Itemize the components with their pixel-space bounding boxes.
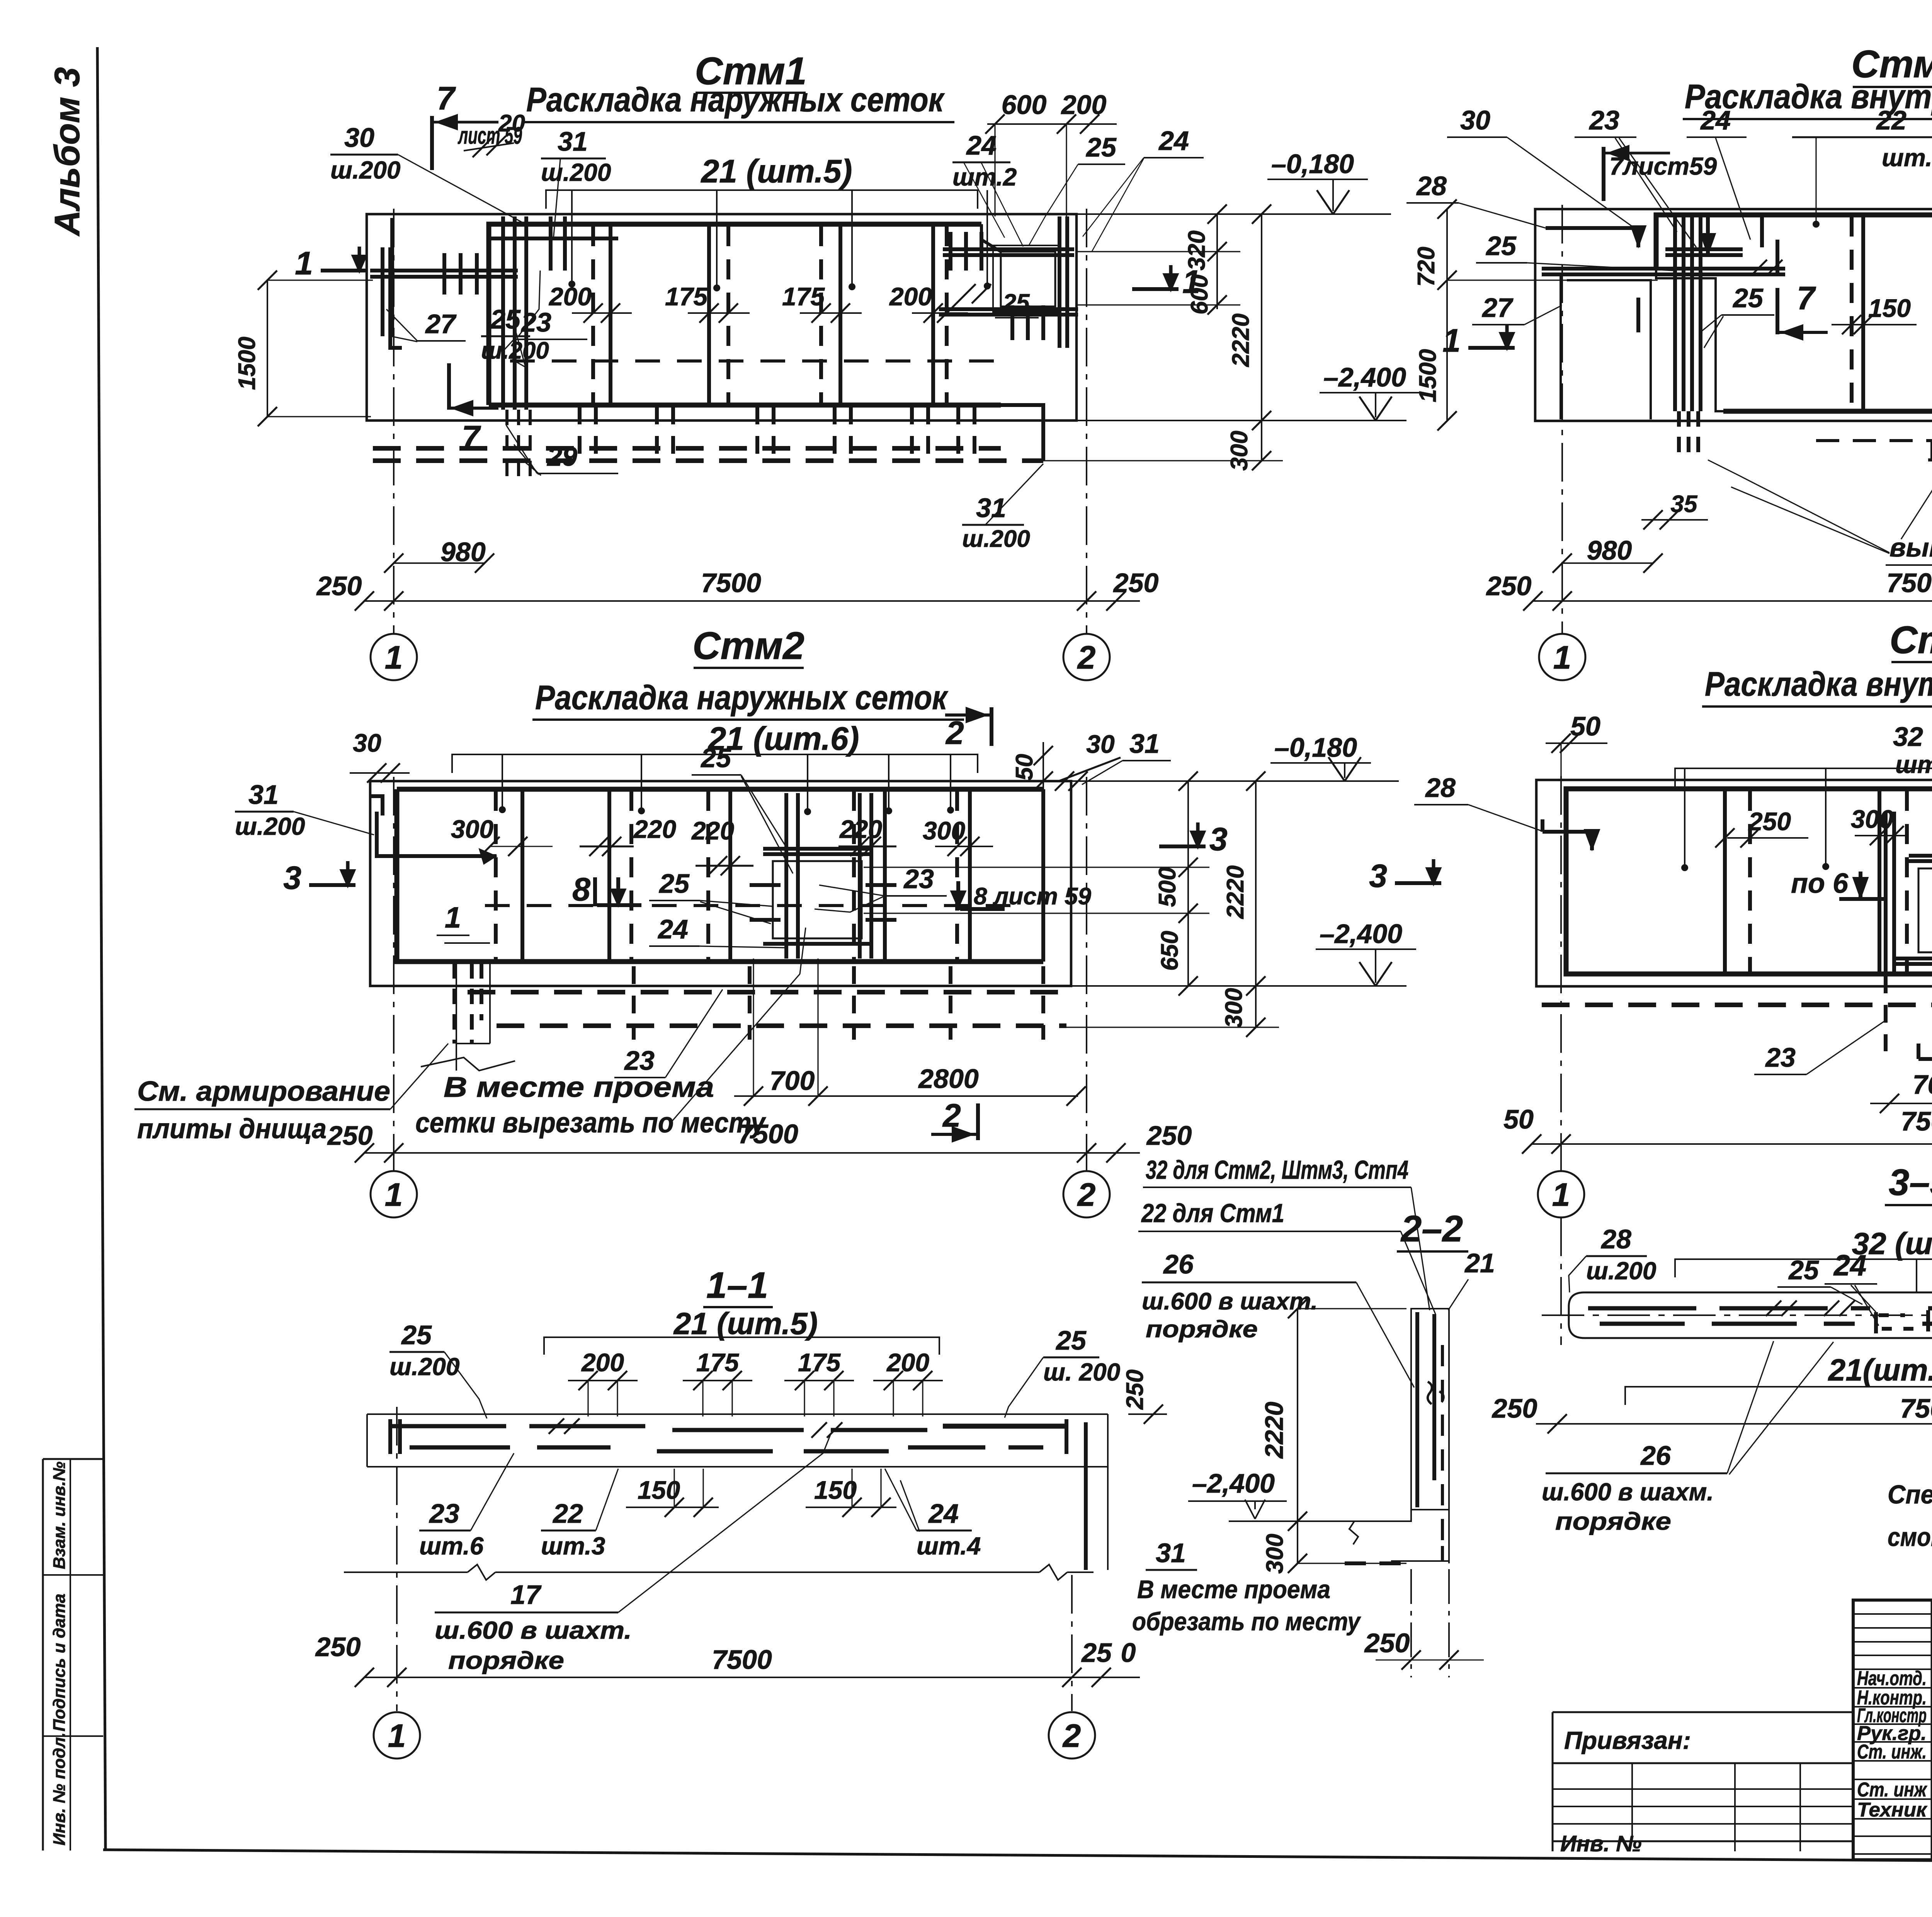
view1 left corner rebar bbox=[370, 216, 618, 477]
view1 axis line 1 bbox=[393, 209, 395, 634]
view4 axis line 1 bbox=[1560, 776, 1562, 1171]
view1 opening bbox=[993, 245, 1061, 312]
svg-text:ш.200: ш.200 bbox=[235, 812, 305, 840]
sect22 label 22 dlya bbox=[1138, 1199, 1435, 1314]
view3 axis line 1 bbox=[393, 777, 395, 1171]
sect33 band body bbox=[1569, 1292, 1932, 1376]
view2 section mark 7 inner bbox=[1777, 280, 1828, 340]
view4 wall outline bbox=[1536, 780, 1932, 986]
view3 label 25 mid bbox=[649, 868, 773, 924]
svg-text:24: 24 bbox=[966, 130, 997, 160]
svg-text:20: 20 bbox=[498, 110, 525, 137]
sect11 label 22 sht3 bbox=[541, 1469, 618, 1560]
view3 note v meste proema bbox=[415, 928, 806, 1139]
svg-text:32: 32 bbox=[1893, 722, 1923, 752]
svg-text:25: 25 bbox=[1003, 289, 1030, 316]
svg-text:–0,180: –0,180 bbox=[1271, 149, 1354, 179]
sect11 axis line 1 bbox=[396, 1407, 398, 1711]
view1 dim 20 bbox=[464, 110, 525, 157]
svg-text:7500: 7500 bbox=[1886, 568, 1932, 598]
view3 bottom dashed band bbox=[421, 962, 1066, 1071]
sect33 axis line 1 bbox=[1560, 1217, 1562, 1345]
view2 label 30 bbox=[1447, 105, 1634, 228]
view4 label 32 sht4 bbox=[1675, 722, 1932, 871]
view2 section mark 1 left bbox=[1468, 346, 1515, 350]
svg-text:Стм2: Стм2 bbox=[1889, 618, 1932, 662]
svg-text:175: 175 bbox=[696, 1348, 739, 1377]
svg-text:ш.200: ш.200 bbox=[962, 526, 1030, 552]
svg-text:700: 700 bbox=[1913, 1069, 1932, 1100]
svg-text:2: 2 bbox=[942, 1097, 961, 1134]
view1 mesh outline bbox=[489, 224, 1001, 405]
privyazan table bbox=[1553, 1712, 1853, 1856]
svg-text:28: 28 bbox=[1600, 1224, 1631, 1254]
svg-text:1: 1 bbox=[385, 639, 403, 676]
svg-text:1: 1 bbox=[1182, 264, 1201, 300]
svg-text:ш. 200: ш. 200 bbox=[1043, 1358, 1120, 1386]
view3 section mark 8 list59 right bbox=[951, 881, 1091, 910]
svg-text:по 6: по 6 bbox=[1791, 868, 1849, 899]
view3 axis line 2 bbox=[1086, 777, 1087, 1171]
title block left grid bbox=[1853, 1600, 1932, 1860]
svg-text:28: 28 bbox=[1425, 773, 1456, 803]
svg-text:1500: 1500 bbox=[1415, 349, 1441, 402]
svg-text:250: 250 bbox=[1748, 807, 1791, 836]
svg-text:31: 31 bbox=[1156, 1538, 1186, 1568]
svg-text:24: 24 bbox=[928, 1498, 959, 1529]
view1 dim row 250-7500-250 bbox=[316, 568, 1159, 611]
view2 left rebar cluster bbox=[1542, 215, 1785, 458]
svg-text:7лист59: 7лист59 bbox=[1609, 152, 1717, 180]
sect22 dim 250 bbox=[1364, 1569, 1484, 1677]
sect11 dim row 250-7500-250 bbox=[315, 1632, 1140, 1687]
svg-text:250: 250 bbox=[1113, 568, 1159, 598]
sect22 label 21 bbox=[1448, 1248, 1495, 1310]
sect11 dims 150 150 bbox=[626, 1469, 896, 1517]
view3 section mark 2 top bbox=[945, 707, 992, 751]
svg-text:Стм2: Стм2 bbox=[692, 624, 804, 667]
view1 section mark 1 right bbox=[1132, 287, 1179, 291]
view2 title Stm1 bbox=[1851, 43, 1932, 87]
svg-text:ш.600 в шахм.: ш.600 в шахм. bbox=[1542, 1478, 1714, 1506]
svg-text:2220: 2220 bbox=[1222, 865, 1249, 919]
view4 dim 700 2800 bbox=[1870, 1069, 1932, 1113]
svg-text:Техник: Техник bbox=[1857, 1799, 1928, 1821]
view1 right dim col outer bbox=[1043, 204, 1283, 471]
svg-text:Раскладка наружных сеток: Раскладка наружных сеток bbox=[535, 678, 949, 717]
svg-text:шт. 4: шт. 4 bbox=[1895, 751, 1932, 778]
sect11 ground line bbox=[344, 1565, 1094, 1580]
view3 label 31 sh200 top left bbox=[235, 780, 374, 840]
view1 section mark 7 list 59 top bbox=[432, 80, 522, 170]
svg-text:7500: 7500 bbox=[1901, 1106, 1932, 1136]
view3 subtitle bbox=[532, 678, 964, 720]
view3 label 23 mid bbox=[815, 864, 947, 912]
view3 right dim col outer bbox=[1066, 771, 1279, 1037]
sect33 title bbox=[1885, 1162, 1932, 1205]
svg-text:0: 0 bbox=[1121, 1638, 1136, 1668]
stamp column boxes bbox=[43, 1459, 103, 1851]
view1 wall outline bbox=[367, 214, 1077, 421]
svg-text:30: 30 bbox=[1086, 730, 1115, 758]
svg-text:23: 23 bbox=[1765, 1042, 1796, 1073]
view1 axis circle 2 bbox=[1063, 634, 1110, 680]
view3 dims 30 31 top right bbox=[1055, 729, 1171, 791]
view4 dim row 50-7500-250 bbox=[1503, 1104, 1932, 1154]
view3 right dim col inner bbox=[864, 771, 1209, 996]
svg-text:7: 7 bbox=[437, 80, 456, 116]
svg-text:23: 23 bbox=[624, 1045, 655, 1076]
view2 dim 720 1500 bbox=[1413, 199, 1658, 431]
view1 axis line 2 bbox=[1086, 209, 1087, 634]
svg-text:250: 250 bbox=[327, 1120, 373, 1151]
svg-text:600: 600 bbox=[1002, 90, 1047, 120]
view2 mesh outline bbox=[1656, 215, 1932, 411]
svg-text:Спецификацию арматурных изде: Спецификацию арматурных изделий bbox=[1888, 1480, 1932, 1509]
svg-text:24: 24 bbox=[657, 914, 688, 944]
svg-text:2: 2 bbox=[1077, 639, 1096, 676]
svg-text:32 для Стм2, Штм3, Стп4: 32 для Стм2, Штм3, Стп4 bbox=[1146, 1155, 1408, 1185]
svg-text:300: 300 bbox=[1262, 1534, 1288, 1573]
svg-text:50: 50 bbox=[1011, 754, 1038, 781]
svg-text:23: 23 bbox=[903, 864, 934, 894]
svg-text:21: 21 bbox=[1464, 1248, 1495, 1278]
sect22 dim 2220 bbox=[1260, 1299, 1406, 1531]
sect11 dim 250 right bbox=[1122, 1369, 1167, 1424]
svg-text:29: 29 bbox=[546, 441, 577, 472]
svg-text:выпуски из днища: выпуски из днища bbox=[1889, 533, 1932, 562]
svg-text:175: 175 bbox=[798, 1348, 841, 1377]
view2 bottom dashed lines bbox=[1723, 411, 1932, 460]
view1 dims 200 175 175 200 bbox=[548, 282, 968, 323]
view1 title Stm1 bbox=[695, 49, 806, 93]
svg-text:150: 150 bbox=[814, 1476, 857, 1504]
view2 label 25 left bbox=[1476, 231, 1673, 271]
view2 label 23 bbox=[1575, 105, 1696, 247]
view3 section mark 3 right bbox=[1159, 844, 1206, 848]
view2 label vypuski bbox=[1708, 433, 1932, 565]
sect11 axis circle 1 bbox=[374, 1712, 420, 1759]
svg-text:21 (шт.5): 21 (шт.5) bbox=[673, 1306, 818, 1341]
svg-text:Привязан:: Привязан: bbox=[1564, 1726, 1691, 1754]
sect11 label 21 sht5 bbox=[544, 1306, 939, 1355]
svg-text:шт.4: шт.4 bbox=[917, 1532, 981, 1560]
svg-text:шт.3: шт.3 bbox=[541, 1532, 605, 1560]
sect22 label 32 dlya bbox=[1143, 1155, 1430, 1310]
sect11 rebar rows bbox=[390, 1418, 1066, 1454]
svg-text:2: 2 bbox=[945, 715, 964, 751]
view3 label 24 mid bbox=[649, 914, 784, 948]
svg-text:шт.2: шт.2 bbox=[952, 163, 1017, 191]
svg-text:3: 3 bbox=[1209, 821, 1228, 857]
view1 label 25 small bbox=[956, 284, 1039, 318]
svg-text:ш.600 в шахт.: ш.600 в шахт. bbox=[1142, 1288, 1318, 1315]
view2 axis circle 1 bbox=[1539, 634, 1585, 680]
svg-text:21(шт. 6): 21(шт. 6) bbox=[1828, 1353, 1932, 1387]
svg-text:24: 24 bbox=[1700, 105, 1731, 135]
svg-text:25: 25 bbox=[1081, 1638, 1112, 1668]
sect33 center line bbox=[1542, 1314, 1932, 1316]
view2 left opening bbox=[1561, 274, 1651, 419]
svg-text:300: 300 bbox=[451, 815, 493, 843]
sect11 axis line 2 bbox=[1071, 1575, 1073, 1711]
view4 left end bar bbox=[1543, 819, 1600, 850]
svg-text:650: 650 bbox=[1156, 931, 1183, 970]
sect22 column foot bbox=[1345, 1510, 1449, 1563]
sect33 labels 25 24 above bbox=[1777, 1249, 1932, 1326]
svg-text:2–2: 2–2 bbox=[1400, 1208, 1463, 1250]
svg-text:300: 300 bbox=[923, 816, 965, 845]
svg-text:7: 7 bbox=[1797, 280, 1816, 316]
svg-text:смотрите на листе 60.: смотрите на листе 60. bbox=[1888, 1522, 1932, 1552]
view1 dim 980 bbox=[384, 537, 494, 573]
view2 section mark 7 list59 bbox=[1604, 145, 1717, 201]
svg-text:175: 175 bbox=[665, 282, 708, 311]
svg-text:31: 31 bbox=[558, 126, 588, 157]
sect22 label 31 note bbox=[1132, 1538, 1361, 1636]
svg-text:150: 150 bbox=[1868, 294, 1911, 322]
svg-text:25: 25 bbox=[1085, 132, 1117, 162]
svg-text:250: 250 bbox=[1146, 1120, 1192, 1151]
view4 subtitle bbox=[1702, 665, 1932, 707]
view2 wall outline bbox=[1535, 209, 1932, 421]
view2 axis line 1 bbox=[1561, 205, 1563, 634]
svg-text:2220: 2220 bbox=[1228, 313, 1254, 367]
svg-text:Раскладка внутренних сеток: Раскладка внутренних сеток bbox=[1705, 665, 1932, 703]
view3 section mark 2 bottom bbox=[931, 1097, 978, 1142]
svg-text:1: 1 bbox=[445, 901, 461, 934]
svg-text:24: 24 bbox=[1158, 126, 1189, 156]
svg-text:220: 220 bbox=[633, 815, 676, 843]
view1 bottom dashed band bbox=[373, 405, 1043, 461]
view2 mesh vertical bars bbox=[1852, 216, 1932, 410]
svg-text:Подпись и дата: Подпись и дата bbox=[50, 1594, 69, 1731]
svg-text:23: 23 bbox=[520, 307, 551, 337]
sect33 label 32 sht4 bbox=[1675, 1226, 1932, 1293]
svg-text:ш.200: ш.200 bbox=[330, 156, 400, 184]
view1 label 29 bbox=[506, 425, 618, 475]
svg-text:Альбом 3: Альбом 3 bbox=[48, 67, 87, 237]
view1 mesh vertical bars bbox=[593, 226, 947, 404]
sect22 label 26 bbox=[1142, 1249, 1414, 1388]
svg-text:22 для Стм1: 22 для Стм1 bbox=[1141, 1199, 1284, 1228]
svg-text:В месте проема: В месте проема bbox=[1137, 1575, 1330, 1604]
view3 axis circle 1 bbox=[371, 1171, 417, 1217]
spec note bbox=[1888, 1480, 1932, 1552]
view1 label 30 sh200 bbox=[330, 123, 526, 224]
view2 label 22 sht3 bbox=[1792, 105, 1932, 228]
view1 axis circle 1 bbox=[371, 634, 417, 680]
svg-text:22: 22 bbox=[1876, 105, 1906, 135]
sect11 label 23 sht6 bbox=[419, 1453, 514, 1560]
view2 dim row 250-7500-250 bbox=[1486, 568, 1932, 611]
view3 label 23 bottom bbox=[614, 989, 723, 1078]
view3 section mark 3 left bbox=[309, 883, 355, 887]
view2 dims 150 150 bbox=[1832, 294, 1932, 334]
svg-text:обрезать по месту: обрезать по месту bbox=[1132, 1607, 1361, 1636]
svg-text:ш.200: ш.200 bbox=[541, 158, 611, 186]
view1 label 25 sh200 left bbox=[481, 271, 549, 367]
view4 dims 250 300 250 bbox=[1715, 805, 1932, 848]
svg-text:27: 27 bbox=[1481, 293, 1514, 323]
svg-text:шт.6: шт.6 bbox=[419, 1532, 484, 1560]
svg-text:200: 200 bbox=[581, 1348, 624, 1377]
svg-text:720: 720 bbox=[1413, 247, 1440, 286]
svg-text:–2,400: –2,400 bbox=[1323, 362, 1406, 392]
svg-text:25: 25 bbox=[1485, 231, 1517, 261]
sect11 slab body bbox=[367, 1414, 1108, 1570]
svg-text:220: 220 bbox=[691, 816, 734, 845]
svg-text:2220: 2220 bbox=[1260, 1401, 1288, 1459]
view4 axis circle 1 bbox=[1538, 1171, 1584, 1217]
view1 subtitle bbox=[524, 80, 954, 122]
svg-text:плиты днища: плиты днища bbox=[137, 1113, 327, 1144]
svg-text:ш.200: ш.200 bbox=[389, 1353, 459, 1381]
svg-text:21 (шт.5): 21 (шт.5) bbox=[700, 153, 852, 189]
view3 dim 50 right bbox=[1011, 742, 1053, 791]
svg-text:250: 250 bbox=[316, 571, 362, 601]
svg-text:250: 250 bbox=[1364, 1628, 1410, 1658]
view1 label 31 bottom right bbox=[962, 464, 1043, 552]
svg-text:3–3: 3–3 bbox=[1889, 1162, 1932, 1203]
view4 section po6 left bbox=[1791, 868, 1884, 901]
svg-text:В месте проема: В месте проема bbox=[444, 1071, 714, 1103]
view1 label 23 bbox=[504, 307, 587, 350]
svg-text:23: 23 bbox=[429, 1498, 459, 1529]
sect33 band rebar bbox=[1588, 1301, 1932, 1333]
svg-text:31: 31 bbox=[1129, 729, 1160, 759]
svg-text:Ст. инж.: Ст. инж. bbox=[1857, 1741, 1927, 1763]
svg-text:Инв. № подл.: Инв. № подл. bbox=[50, 1733, 69, 1845]
view1 dim 1500 left bbox=[234, 271, 373, 426]
svg-text:26: 26 bbox=[1640, 1440, 1671, 1471]
svg-text:Ст. инж: Ст. инж bbox=[1857, 1779, 1927, 1801]
svg-text:Взам. инв.№: Взам. инв.№ bbox=[50, 1462, 69, 1569]
view3 pos1 underline bbox=[444, 942, 490, 944]
view3 dims 300 220 220 220 300 bbox=[451, 815, 993, 875]
view2 dim 35 left bbox=[1641, 491, 1708, 529]
view3 wall outline bbox=[370, 781, 1071, 986]
view4 label 28 left bbox=[1414, 773, 1542, 831]
svg-text:24: 24 bbox=[1833, 1249, 1867, 1282]
svg-text:–0,180: –0,180 bbox=[1274, 732, 1357, 763]
svg-text:Раскладка наружных сеток: Раскладка наружных сеток bbox=[526, 80, 945, 119]
svg-text:25: 25 bbox=[401, 1320, 432, 1350]
view3 sm armirovanie note bbox=[134, 1044, 448, 1144]
sect11 label 24 sht4 bbox=[885, 1469, 981, 1560]
sect33 dim row 250-7500-250 bbox=[1492, 1390, 1932, 1433]
sect11 label 17 bbox=[435, 1434, 831, 1674]
view4 mesh vertical bars bbox=[1725, 791, 1932, 972]
view4 label 23 bottom bbox=[1754, 1020, 1886, 1074]
svg-text:ш.200: ш.200 bbox=[481, 337, 549, 364]
svg-text:23: 23 bbox=[1588, 105, 1619, 135]
view2 label 28 left bbox=[1406, 171, 1546, 228]
svg-text:3: 3 bbox=[1369, 858, 1387, 894]
svg-text:250: 250 bbox=[1492, 1393, 1537, 1423]
svg-text:1–1: 1–1 bbox=[706, 1265, 768, 1306]
svg-text:980: 980 bbox=[1587, 535, 1632, 565]
svg-text:250: 250 bbox=[315, 1632, 361, 1662]
view3 pos 1 label bbox=[437, 901, 469, 935]
svg-text:200: 200 bbox=[889, 282, 932, 311]
sect33 label 21 sht6 bbox=[1625, 1353, 1932, 1405]
sheet bottom border bbox=[103, 1850, 1932, 1865]
view1 label 24 sht2 bbox=[952, 130, 1023, 247]
svg-text:250: 250 bbox=[1486, 571, 1532, 601]
svg-text:25: 25 bbox=[490, 304, 521, 334]
svg-text:1: 1 bbox=[388, 1718, 406, 1754]
svg-text:220: 220 bbox=[839, 815, 882, 843]
view2 label 27 bbox=[1472, 293, 1562, 325]
view1 label 24 right top bbox=[1083, 126, 1204, 252]
title block outer bbox=[1853, 1600, 1932, 1860]
svg-text:300: 300 bbox=[1221, 988, 1247, 1028]
view2 label 25 mid bbox=[1700, 283, 1774, 348]
svg-text:ш.200: ш.200 bbox=[1586, 1257, 1656, 1285]
svg-text:2800: 2800 bbox=[918, 1064, 979, 1094]
sect22 column bbox=[1411, 1309, 1449, 1546]
svg-text:7: 7 bbox=[462, 419, 481, 455]
view1 label 25 top right bbox=[1029, 132, 1125, 246]
svg-text:25: 25 bbox=[658, 868, 690, 899]
view2 subtitle bbox=[1683, 77, 1932, 119]
view3 dim row 250-7500-250 bbox=[327, 1119, 1192, 1163]
view4 title Stm2 bbox=[1889, 618, 1932, 662]
view1 label 31 sh200 bbox=[541, 126, 611, 240]
view4 dim 50 top left bbox=[1546, 711, 1607, 788]
svg-text:30: 30 bbox=[344, 123, 374, 153]
view3 section mark 8 down bbox=[572, 871, 641, 907]
view1 label 27 bbox=[386, 309, 466, 342]
svg-text:7500: 7500 bbox=[1900, 1393, 1932, 1423]
svg-text:1: 1 bbox=[1552, 1176, 1570, 1213]
sect11 title bbox=[703, 1265, 773, 1307]
svg-text:31: 31 bbox=[248, 780, 279, 810]
sect33 label 26 bbox=[1542, 1341, 1833, 1535]
svg-text:30: 30 bbox=[353, 729, 381, 757]
view4 center opening bbox=[1886, 812, 1932, 974]
sect22 dim 300 bbox=[1262, 1521, 1406, 1574]
svg-text:250: 250 bbox=[1122, 1369, 1148, 1410]
sect33 label 28 left bbox=[1569, 1224, 1656, 1292]
svg-text:1: 1 bbox=[1442, 322, 1461, 359]
svg-text:1: 1 bbox=[295, 245, 313, 281]
svg-text:200: 200 bbox=[548, 282, 592, 311]
svg-text:См. армирование: См. армирование bbox=[137, 1076, 390, 1107]
view2 dim 980 bbox=[1553, 535, 1663, 573]
svg-text:26: 26 bbox=[1163, 1249, 1194, 1279]
view1 label 21 sht5 bbox=[546, 153, 991, 291]
svg-text:27: 27 bbox=[425, 309, 457, 339]
svg-text:8 лист 59: 8 лист 59 bbox=[974, 883, 1091, 910]
svg-text:1500: 1500 bbox=[234, 337, 260, 390]
view1 right dim col inner bbox=[1077, 204, 1240, 315]
view1 dim 600 200 top bbox=[985, 90, 1117, 216]
view3 mesh outline bbox=[397, 789, 1043, 962]
sheet left border bbox=[97, 47, 105, 1851]
svg-text:порядке: порядке bbox=[448, 1646, 564, 1674]
svg-text:200: 200 bbox=[886, 1348, 929, 1377]
sect11 label 25 left bbox=[389, 1320, 487, 1418]
svg-text:25: 25 bbox=[700, 743, 731, 773]
svg-text:3: 3 bbox=[283, 860, 301, 896]
sect22 level -2.400 bbox=[1188, 1468, 1406, 1521]
svg-text:порядке: порядке bbox=[1146, 1316, 1258, 1343]
svg-text:8: 8 bbox=[572, 871, 590, 907]
svg-text:25: 25 bbox=[1788, 1255, 1819, 1285]
svg-text:ш.600 в шахт.: ш.600 в шахт. bbox=[435, 1616, 632, 1644]
